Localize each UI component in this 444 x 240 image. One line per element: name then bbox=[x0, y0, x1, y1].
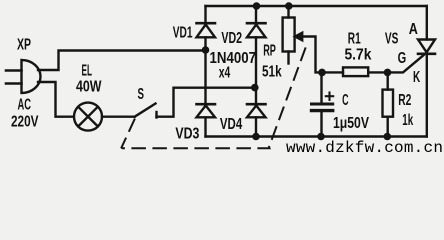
svg-text:AC: AC bbox=[18, 97, 32, 114]
svg-text:R1: R1 bbox=[348, 30, 361, 47]
switch S bbox=[135, 104, 157, 118]
svg-text:www.dzkfw.com.cn: www.dzkfw.com.cn bbox=[286, 139, 443, 156]
svg-text:EL: EL bbox=[82, 63, 93, 80]
svg-text:VD4: VD4 bbox=[220, 116, 242, 133]
svg-text:x4: x4 bbox=[219, 65, 231, 82]
svg-text:RP: RP bbox=[263, 42, 276, 59]
svg-text:51k: 51k bbox=[262, 64, 282, 81]
svg-text:C: C bbox=[342, 92, 349, 109]
wire lamp to switch bbox=[102, 115, 135, 117]
node R2 bottom rail junction dot bbox=[384, 133, 392, 141]
capacitor C bbox=[312, 72, 334, 136]
node C bottom rail junction dot bbox=[317, 133, 325, 141]
svg-text:5.7k: 5.7k bbox=[345, 46, 372, 63]
wire plug top output to AC1 node bbox=[38, 51, 206, 71]
diode VD4 bbox=[247, 88, 266, 137]
wire top rail DC+ bbox=[206, 5, 427, 7]
node AC1 junction dot bbox=[202, 46, 210, 54]
thyristor VS bbox=[418, 6, 435, 137]
wire plug bottom output to lamp bbox=[38, 82, 74, 117]
svg-text:S: S bbox=[138, 86, 145, 103]
svg-text:VD2: VD2 bbox=[221, 30, 242, 47]
node wiper/R1/C junction dot bbox=[318, 69, 326, 77]
RP wiper arrow bbox=[295, 33, 322, 73]
plug XP bbox=[6, 60, 41, 93]
svg-text:XP: XP bbox=[17, 37, 31, 54]
diode VD2 bbox=[247, 6, 266, 88]
svg-text:A: A bbox=[409, 21, 418, 38]
svg-text:1k: 1k bbox=[402, 112, 413, 129]
diode VD1 bbox=[197, 6, 216, 50]
svg-text:220V: 220V bbox=[11, 114, 39, 131]
svg-text:1N4007: 1N4007 bbox=[210, 50, 257, 67]
wire AC1 node down to VD3 bbox=[204, 50, 206, 103]
svg-text:VD3: VD3 bbox=[175, 126, 199, 143]
potentiometer RP bbox=[283, 6, 295, 64]
node RP top rail junction dot bbox=[285, 2, 293, 10]
svg-text:1μ50V: 1μ50V bbox=[333, 115, 369, 132]
svg-text:VS: VS bbox=[385, 31, 399, 48]
resistor R1 bbox=[343, 67, 368, 76]
svg-text:VD1: VD1 bbox=[173, 25, 193, 42]
wire gate of VS bbox=[388, 55, 424, 72]
diode VD3 bbox=[197, 104, 216, 136]
node VD2 top rail junction dot bbox=[253, 2, 261, 10]
resistor R2 bbox=[383, 72, 394, 136]
svg-text:K: K bbox=[413, 69, 420, 86]
mechanical link dashed S to RP bbox=[122, 43, 308, 149]
wire R1 to node2 bbox=[368, 71, 387, 73]
lamp EL bbox=[74, 103, 102, 131]
node R1/R2/gate junction dot bbox=[384, 69, 392, 77]
wire bottom rail DC- bbox=[206, 135, 427, 137]
svg-text:G: G bbox=[398, 50, 407, 67]
node AC2 junction dot bbox=[251, 84, 259, 92]
wire node1 to R1 bbox=[322, 71, 343, 73]
node VD4 bottom rail junction dot bbox=[252, 133, 260, 141]
wire switch to AC2 node bbox=[157, 88, 255, 117]
svg-text:R2: R2 bbox=[398, 92, 411, 109]
svg-text:40W: 40W bbox=[76, 79, 102, 96]
